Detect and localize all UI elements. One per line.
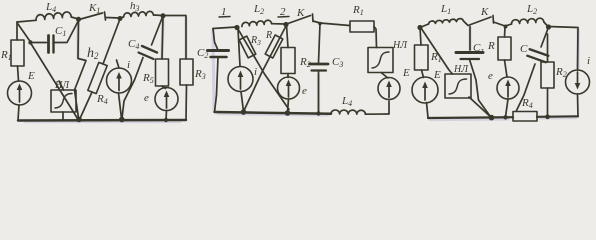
wire e to bottom ckt3 <box>506 99 509 117</box>
bridge resistor R3 tilted box <box>239 36 256 58</box>
left edge wire ckt1 <box>16 22 18 40</box>
wire C2 to bottom corner <box>215 57 219 112</box>
wire R to source e ckt3 <box>505 60 508 77</box>
bottom junction 3 <box>164 118 168 122</box>
top-left node ckt3 <box>417 25 422 30</box>
svg-text:L4: L4 <box>45 1 56 14</box>
node 2 underline <box>278 16 289 19</box>
svg-text:2: 2 <box>280 6 286 18</box>
svg-text:K: K <box>296 7 305 19</box>
svg-text:R5: R5 <box>142 72 154 85</box>
wire R1 to source ckt3 <box>422 70 424 78</box>
resistor R4 box ckt3 <box>513 112 537 122</box>
NL bottom stub <box>62 112 64 120</box>
wire i to bottom corner ckt3 <box>577 94 580 117</box>
node D <box>28 40 32 44</box>
capacitor C2 plates <box>208 49 229 52</box>
inductor L3 ckt1 <box>124 11 154 17</box>
wire corner to L1 <box>420 24 429 28</box>
switch K blade ckt3 <box>468 17 491 26</box>
top wire right ckt3 <box>549 27 579 71</box>
svg-text:R: R <box>265 30 272 41</box>
svg-text:L1: L1 <box>440 3 451 16</box>
wire node to R2 ckt3 <box>547 34 549 62</box>
bridge resistor R tilted box <box>265 35 283 58</box>
source e arrow <box>166 94 168 108</box>
wire E to bottom corner ckt3 <box>427 103 429 118</box>
svg-text:i: i <box>254 66 257 78</box>
wire R1 to NL ckt2 <box>374 27 377 48</box>
svg-text:C: C <box>520 43 528 55</box>
wire R top ckt3 <box>504 27 507 38</box>
switch K contact ckt3 <box>492 16 495 24</box>
node 1 underline <box>219 16 230 19</box>
wire e to bottom <box>165 111 168 121</box>
inductor L4 ckt1 <box>36 12 71 20</box>
resistor R2 box ckt2 <box>281 48 295 74</box>
wire R5 to source e <box>162 86 166 89</box>
NL branch diagonal ckt3 <box>422 30 453 75</box>
capacitor Cg wire top ckt3 <box>469 27 471 51</box>
wire E to bottom <box>18 105 19 120</box>
svg-text:h3: h3 <box>130 0 140 13</box>
bottom wire right ckt3 <box>537 115 578 118</box>
inductor L2 ckt3 <box>511 18 543 24</box>
wire node C to R5 <box>162 16 163 59</box>
node B <box>118 16 123 21</box>
source i top stub <box>117 60 120 68</box>
source E arrow <box>19 87 21 102</box>
NL diagonal out ckt3 <box>469 97 491 117</box>
wire C3 to bottom <box>318 71 320 113</box>
wire C diagonal to bottom ckt3 <box>517 64 536 111</box>
capacitor C4 upper diagonal <box>152 17 163 45</box>
wire R2 to source e <box>287 74 289 78</box>
wire K to R1 ckt2 <box>313 21 350 26</box>
resistor h2 branch wire <box>75 20 87 118</box>
wire e to bottom ckt2 <box>288 99 289 113</box>
wire L1 to switch <box>464 21 468 25</box>
NL curve ckt3 <box>449 79 467 94</box>
svg-text:R1: R1 <box>430 51 442 64</box>
svg-text:C1: C1 <box>55 25 66 38</box>
inductor L1 ckt3 <box>429 19 464 24</box>
capacitor C diagonal top ckt3 <box>541 29 548 48</box>
svg-text:НЛ: НЛ <box>453 64 469 75</box>
capacitor C4 plates <box>142 46 157 53</box>
wire i to bottom junction <box>119 93 122 119</box>
capacitor C1 plates <box>47 36 50 53</box>
wire node2 to R2 <box>287 25 289 48</box>
switch K blade ckt2 <box>288 16 311 24</box>
svg-text:R1: R1 <box>352 4 364 17</box>
wire R1 to source E <box>18 66 19 81</box>
wire L4 to node A <box>71 17 78 19</box>
inductor L2 ckt2 <box>242 20 272 26</box>
wire top-right ckt1 <box>163 16 186 60</box>
bridge diagonal B ckt2 <box>244 26 286 111</box>
svg-text:L4: L4 <box>341 95 352 108</box>
resistor R4 tilted box <box>88 62 107 93</box>
source i arrow down ckt3 <box>577 72 579 86</box>
wire junction to L2 <box>506 24 512 26</box>
node A <box>76 17 81 22</box>
resistor R4 branch upper wire <box>103 19 120 64</box>
wire L2 to node 2 <box>272 23 285 25</box>
svg-text:e: e <box>302 85 307 97</box>
scan artifact halos <box>25 18 578 122</box>
NL curve ckt1 <box>55 94 72 109</box>
resistor R3 box ckt1 <box>180 59 193 85</box>
node 1 dot <box>234 25 239 30</box>
resistor R1 box ckt2 <box>350 21 374 32</box>
resistor R2 box ckt3 <box>541 62 554 88</box>
bottom junction 2 <box>119 117 125 123</box>
svg-text:e: e <box>144 92 149 104</box>
inductor L4 bottom ckt2 <box>331 110 365 114</box>
capacitor Cg plates ckt3 <box>456 51 483 54</box>
svg-text:E: E <box>402 67 410 79</box>
diagonal corner to node D <box>18 24 31 42</box>
svg-text:1: 1 <box>221 6 227 18</box>
wire L4 to corner ckt2 <box>365 113 389 115</box>
svg-text:R2: R2 <box>299 56 311 69</box>
nonlinear element NL box ckt3 <box>445 74 471 98</box>
junction C3 top <box>318 22 322 26</box>
svg-text:Cг: Cг <box>473 42 483 55</box>
node 2 dot <box>283 22 288 27</box>
svg-text:C4: C4 <box>128 38 139 51</box>
bottom wire left ckt3 <box>428 116 513 119</box>
wire C1 up to node A <box>54 21 79 43</box>
left edge wire ckt3 <box>420 28 421 46</box>
svg-text:L2: L2 <box>253 3 264 16</box>
capacitor C3 plates <box>310 63 329 66</box>
svg-text:R3: R3 <box>250 35 261 47</box>
source e circle ckt2 <box>278 77 300 99</box>
svg-text:i: i <box>587 55 590 67</box>
left corner jog ckt2 <box>213 29 218 50</box>
bottom junction diag ckt3 <box>489 115 495 121</box>
bottom junction C3 <box>316 111 320 115</box>
source E circle ckt3 <box>412 77 438 103</box>
svg-text:НЛ: НЛ <box>392 40 408 51</box>
source E circle ckt1 <box>8 81 32 105</box>
svg-text:e: e <box>488 70 493 82</box>
svg-text:h2: h2 <box>87 46 99 61</box>
resistor R1 box ckt1 <box>11 40 24 66</box>
svg-text:C2: C2 <box>197 47 208 60</box>
NL bottom stub ckt2 <box>381 73 388 79</box>
wire R3 to bottom corner <box>185 85 188 120</box>
source E arrow ckt3 <box>424 85 426 100</box>
bottom wire ckt1 <box>18 119 186 122</box>
wire K1 to node B <box>107 17 121 20</box>
wire i to bottom ckt2 <box>241 92 244 112</box>
resistor R middle box ckt3 <box>498 37 511 60</box>
wire R2 to bottom ckt3 <box>547 88 549 117</box>
source e arrow ckt3 <box>507 83 509 97</box>
svg-text:R4: R4 <box>521 97 533 110</box>
svg-text:K: K <box>480 6 489 18</box>
svg-text:R1: R1 <box>0 49 12 62</box>
wire Cg to bottom junction ckt3 <box>470 60 491 117</box>
wire E to bottom corner ckt2 <box>388 101 390 114</box>
wire L3 to node C <box>154 14 164 17</box>
top wire left ckt2 <box>213 27 237 29</box>
bottom junction e ckt2 <box>285 110 291 116</box>
svg-text:E: E <box>433 69 441 81</box>
capacitor C3 wire top <box>319 24 321 63</box>
svg-text:R4: R4 <box>96 93 108 106</box>
bottom junction 1 <box>76 117 82 123</box>
bottom junction e ckt3 <box>503 115 507 119</box>
svg-text:C3: C3 <box>332 56 343 69</box>
svg-text:K1: K1 <box>88 2 100 15</box>
nonlinear element NL box ckt1 <box>51 90 76 112</box>
source E arrow ckt2 <box>388 84 390 98</box>
wire C4 to bottom junction <box>122 58 143 119</box>
node C <box>161 13 166 18</box>
node after L2 ckt3 <box>546 24 551 29</box>
bridge diagonal A ckt2 <box>238 29 289 110</box>
capacitor C diagonal plates ckt3 <box>530 49 549 56</box>
resistor R1 box ckt3 <box>415 45 429 70</box>
bottom junction R2 ckt3 <box>545 114 550 119</box>
svg-text:R: R <box>487 40 495 52</box>
NL curve ckt2 <box>372 52 389 68</box>
wire L2 to node <box>544 22 548 27</box>
source e arrow ckt2 <box>288 83 290 97</box>
source i circle ckt3 <box>566 70 590 94</box>
wire K to junction <box>494 22 506 26</box>
source e circle ckt1 <box>155 88 178 111</box>
svg-text:НЛ: НЛ <box>54 80 70 91</box>
wire top-left ckt1 <box>17 20 36 22</box>
junction R top ckt3 <box>504 25 508 29</box>
svg-text:E: E <box>27 70 35 82</box>
source e circle ckt3 <box>497 77 519 99</box>
switch K contact ckt2 <box>312 14 315 22</box>
switch K1 blade <box>79 13 103 20</box>
svg-text:L2: L2 <box>526 3 537 16</box>
bottom junction i ckt2 <box>241 109 247 115</box>
source E circle ckt2 <box>378 78 400 100</box>
wire node D to C1 <box>31 42 47 44</box>
NL top stub <box>59 81 64 90</box>
source i arrow <box>118 76 120 91</box>
svg-text:R2: R2 <box>555 66 567 79</box>
svg-text:i: i <box>127 59 130 71</box>
source i circle ckt1 <box>107 68 132 93</box>
source i arrow ckt2 <box>240 74 242 89</box>
long diagonal node D to bottom junction <box>32 45 78 119</box>
wire node1 to source i <box>238 29 240 66</box>
wire R4 to bottom junction <box>80 92 92 119</box>
bottom wire ckt2 <box>215 112 332 114</box>
wire node B to L3 <box>120 17 124 18</box>
switch K1 contact <box>105 12 106 20</box>
nonlinear element NL box ckt2 <box>368 48 393 73</box>
source i circle ckt2 <box>228 67 253 92</box>
resistor R5 box ckt1 <box>156 59 169 86</box>
svg-text:R3: R3 <box>194 68 206 81</box>
